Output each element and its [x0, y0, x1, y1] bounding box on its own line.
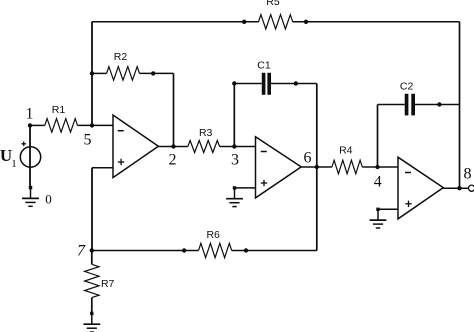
svg-text:7: 7 [77, 243, 86, 260]
junction R6 right [244, 248, 248, 252]
node 1 [28, 123, 32, 127]
wire R2 down to node 2 [173, 73, 175, 146]
node 3 [232, 144, 236, 148]
wire op3 plus input [378, 208, 398, 210]
wire node4 vertical up to C2 [377, 105, 379, 168]
op-amp U1 (stage 1) [113, 115, 158, 178]
svg-text:0: 0 [45, 192, 52, 207]
svg-text:2: 2 [169, 151, 177, 168]
junction C2 right [437, 102, 441, 106]
svg-text:1: 1 [11, 158, 17, 170]
junction node 8 [457, 186, 461, 190]
wire op3 output to terminal [443, 187, 468, 189]
resistor R4 [332, 160, 362, 174]
wire node2 to node3 with R3 [158, 146, 187, 148]
svg-text:R5: R5 [266, 0, 280, 8]
junction right of R5 [304, 20, 308, 24]
node 4 [375, 165, 379, 169]
wire op1 plus down to node 7 [91, 168, 93, 251]
svg-text:5: 5 [84, 131, 92, 148]
ground at op3 plus [376, 208, 379, 211]
svg-text:8: 8 [464, 165, 472, 182]
junction left of R5 [242, 20, 246, 24]
bottom wire node7 to C1 vertical with R6 [92, 250, 199, 252]
terminal circle node 8 [469, 185, 474, 191]
capacitor C2 [405, 94, 409, 116]
wire node6 to node4 with R4 [301, 166, 332, 168]
svg-text:R3: R3 [199, 127, 213, 139]
wire top feedback left segment [92, 21, 259, 23]
svg-text:R7: R7 [101, 278, 115, 290]
ground at source (node 0) [29, 186, 32, 189]
wire node3 vertical up to C1 [233, 84, 235, 147]
op-amp U3 (stage 3, integrator) [398, 157, 443, 219]
svg-text:1: 1 [26, 106, 34, 123]
resistor R3 [188, 141, 220, 153]
resistor R1 [45, 119, 78, 133]
node 7 [90, 248, 94, 252]
junction R2 left [90, 71, 94, 75]
junction R2 right [151, 71, 155, 75]
voltage source U1 circle [20, 147, 40, 167]
wire node1 to node5 with R1 [30, 124, 45, 126]
svg-text:R1: R1 [52, 104, 66, 116]
wire op2 plus input [235, 187, 256, 189]
svg-text:6: 6 [304, 149, 312, 166]
svg-text:R4: R4 [339, 145, 353, 157]
op-amp U2 (stage 2, integrator) [256, 137, 302, 198]
ground at op2 plus [233, 186, 236, 189]
resistor R5 [259, 15, 293, 29]
wire source vertical [29, 125, 31, 187]
wire C1 horizontal [234, 83, 261, 85]
wire left vertical from top to node 5 [91, 22, 93, 126]
svg-text:C2: C2 [400, 81, 414, 93]
ground below R7 [90, 312, 93, 315]
svg-text:R2: R2 [114, 51, 128, 63]
capacitor C1 [262, 73, 266, 95]
svg-text:3: 3 [231, 151, 239, 168]
resistor R7 vertical [91, 250, 93, 264]
wire top feedback right segment [293, 21, 460, 23]
source plus sign [21, 143, 26, 145]
node 6 junction [315, 165, 319, 169]
junction R6 left [182, 248, 186, 252]
svg-text:C1: C1 [257, 60, 271, 72]
svg-text:4: 4 [374, 173, 382, 190]
junction C1 left corner [232, 81, 236, 85]
node 5 [90, 123, 94, 127]
wire R2 branch horizontal [92, 72, 107, 74]
junction C1 right [294, 81, 298, 85]
resistor R2 [107, 67, 140, 81]
wire C1 right vertical down to bottom wire [316, 84, 318, 251]
wire op1 plus input [92, 167, 113, 169]
wire C2 horizontal [378, 104, 405, 106]
svg-text:R6: R6 [206, 229, 220, 241]
node 2 [171, 144, 175, 148]
wire right vertical (node 8 net) [459, 22, 461, 188]
resistor R6 [199, 243, 232, 257]
